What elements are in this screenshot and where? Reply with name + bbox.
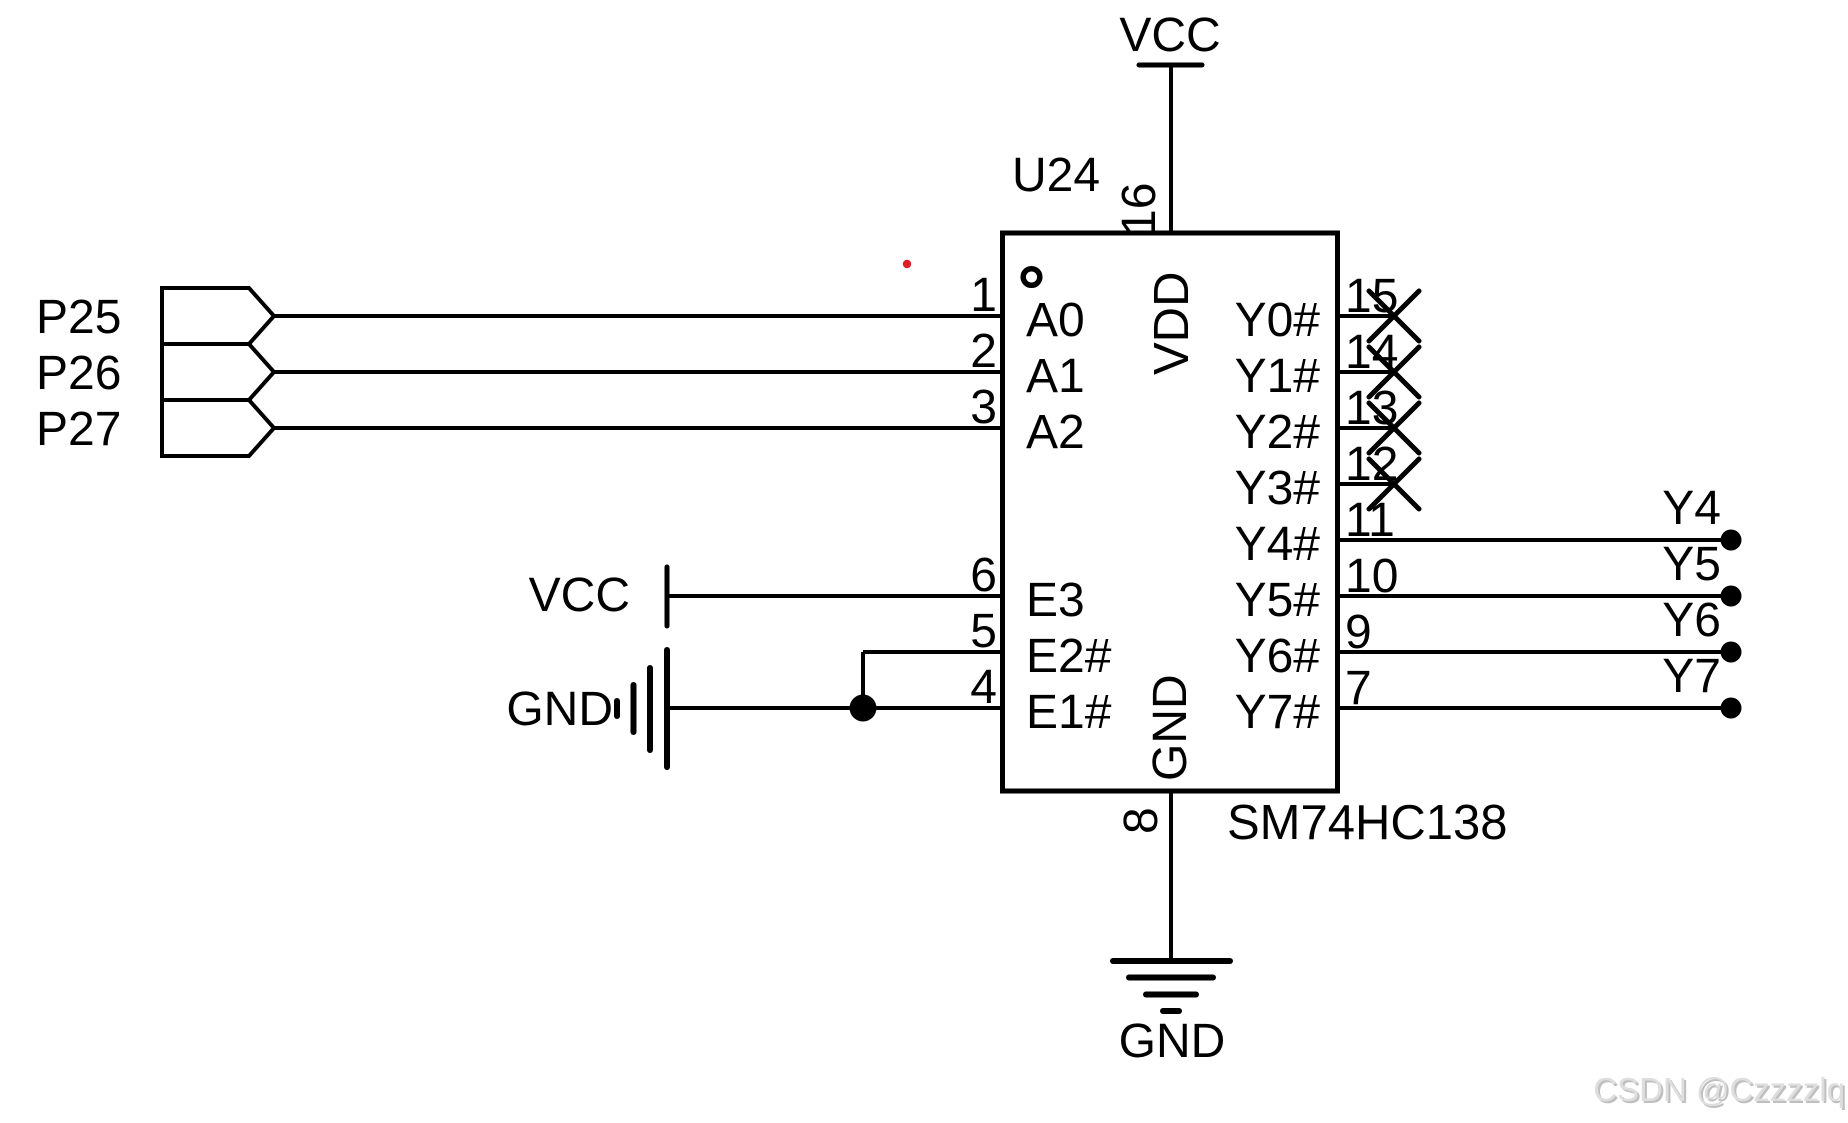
power symbol GND (bottom) — [1113, 961, 1230, 1068]
stray red dot — [903, 260, 911, 268]
net flag P25 — [162, 288, 274, 344]
pin-1 indicator circle — [1023, 269, 1040, 286]
svg-text:Y6: Y6 — [1662, 594, 1721, 647]
svg-text:15: 15 — [1345, 270, 1398, 323]
pin 15 stub — [1338, 314, 1397, 318]
terminal dot Y5 — [1721, 586, 1742, 607]
no-connect X pin 14 — [1369, 347, 1419, 397]
svg-text:Y1#: Y1# — [1235, 350, 1321, 403]
svg-text:GND: GND — [506, 683, 613, 736]
terminal dot Y6 — [1721, 642, 1742, 663]
pin 13 stub — [1338, 426, 1397, 430]
wire pin 8 to GND — [1169, 791, 1173, 961]
svg-text:4: 4 — [970, 661, 997, 714]
svg-text:A2: A2 — [1026, 406, 1085, 459]
no-connect X pin 13 — [1369, 403, 1419, 453]
wire GND to pin 4 — [667, 706, 1002, 710]
svg-text:Y2#: Y2# — [1235, 406, 1321, 459]
wire VCC to pin 16 — [1169, 65, 1173, 233]
svg-text:9: 9 — [1345, 606, 1372, 659]
svg-text:E3: E3 — [1026, 574, 1085, 627]
svg-text:1: 1 — [970, 269, 997, 322]
svg-text:GND: GND — [1144, 674, 1197, 781]
svg-text:P27: P27 — [36, 403, 121, 456]
svg-text:Y3#: Y3# — [1235, 462, 1321, 515]
svg-text:VDD: VDD — [1145, 272, 1199, 375]
svg-text:E2#: E2# — [1026, 630, 1112, 683]
terminal dot Y4 — [1721, 530, 1742, 551]
svg-text:14: 14 — [1345, 326, 1398, 379]
wire Y5 — [1338, 594, 1731, 598]
svg-text:11: 11 — [1345, 494, 1395, 547]
watermark — [1593, 1071, 1847, 1110]
net flag P27 — [162, 400, 274, 456]
svg-text:Y7#: Y7# — [1235, 686, 1321, 739]
svg-text:6: 6 — [970, 549, 997, 602]
svg-text:GND: GND — [1119, 1015, 1226, 1068]
wire Y4 — [1338, 538, 1731, 542]
no-connect X pin 15 — [1369, 291, 1419, 341]
wire riser junction to pin5 row — [861, 652, 865, 708]
svg-text:7: 7 — [1345, 662, 1372, 715]
net flag P26 — [162, 344, 274, 400]
svg-text:P26: P26 — [36, 347, 121, 400]
svg-text:P25: P25 — [36, 291, 121, 344]
svg-text:2: 2 — [970, 325, 997, 378]
pin 14 stub — [1338, 370, 1397, 374]
svg-text:8: 8 — [1115, 807, 1168, 834]
wire P26 to pin 2 — [274, 370, 1002, 374]
svg-text:SM74HC138: SM74HC138 — [1227, 796, 1508, 850]
svg-text:5: 5 — [970, 605, 997, 658]
junction dot — [850, 695, 877, 722]
wire VCC to pin 6 — [667, 594, 1002, 598]
wire Y7 — [1338, 706, 1731, 710]
svg-text:CSDN @Czzzzlq: CSDN @Czzzzlq — [1593, 1071, 1845, 1108]
power symbol VCC (top) — [1119, 9, 1220, 65]
svg-text:Y5#: Y5# — [1235, 574, 1321, 627]
svg-text:13: 13 — [1345, 382, 1398, 435]
svg-text:A0: A0 — [1026, 294, 1085, 347]
svg-text:12: 12 — [1345, 438, 1398, 491]
no-connect X pin 12 — [1369, 459, 1419, 509]
svg-text:VCC: VCC — [529, 569, 630, 622]
svg-text:VCC: VCC — [1119, 9, 1220, 62]
wire P27 to pin 3 — [274, 426, 1002, 430]
svg-text:Y6#: Y6# — [1235, 630, 1321, 683]
svg-text:3: 3 — [970, 381, 997, 434]
svg-text:Y7: Y7 — [1662, 650, 1721, 703]
svg-text:10: 10 — [1345, 550, 1398, 603]
svg-text:16: 16 — [1113, 183, 1166, 236]
svg-text:E1#: E1# — [1026, 686, 1112, 739]
svg-text:Y5: Y5 — [1662, 538, 1721, 591]
svg-text:Y4: Y4 — [1662, 482, 1721, 535]
svg-text:Y0#: Y0# — [1235, 294, 1321, 347]
terminal dot Y7 — [1721, 698, 1742, 719]
svg-text:Y4#: Y4# — [1235, 518, 1321, 571]
svg-text:A1: A1 — [1026, 350, 1085, 403]
wire to pin 5 — [863, 650, 1002, 654]
pin 12 stub — [1338, 482, 1397, 486]
svg-text:U24: U24 — [1012, 149, 1100, 202]
wire P25 to pin 1 — [274, 314, 1002, 318]
wire Y6 — [1338, 650, 1731, 654]
power symbol GND (left) — [506, 650, 667, 767]
power symbol VCC (left) — [529, 567, 667, 626]
IC U24 body — [1003, 233, 1338, 791]
